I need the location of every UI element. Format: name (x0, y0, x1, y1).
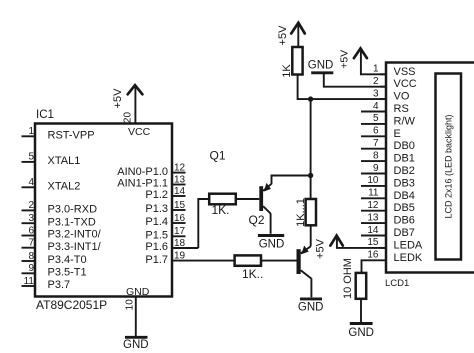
transistor Q1 (lower) (297, 246, 312, 279)
svg-text:10 OHM: 10 OHM (342, 258, 354, 299)
ground symbol top (LCD VCC) (308, 60, 386, 87)
pin 3 VO of LCD1 (373, 88, 410, 102)
svg-text:+5V: +5V (277, 25, 289, 46)
svg-text:DB3: DB3 (394, 177, 415, 189)
svg-text:+5V: +5V (315, 238, 327, 259)
pin 14 DB7 of LCD1 (361, 225, 415, 239)
svg-text:VO: VO (394, 91, 410, 103)
ground symbol below IC1 (123, 337, 149, 351)
wire P1.6 up to resistor (198, 199, 209, 248)
svg-text:DB5: DB5 (394, 202, 415, 214)
svg-text:17: 17 (174, 226, 186, 237)
svg-text:1K: 1K (281, 64, 293, 78)
svg-text:E: E (394, 128, 401, 140)
pin 10 DB3 of LCD1 (361, 175, 415, 189)
wire 1K to LCD VO (298, 75, 386, 100)
svg-text:XTAL1: XTAL1 (48, 155, 81, 167)
svg-text:6: 6 (28, 225, 34, 236)
svg-text:8: 8 (373, 150, 379, 161)
svg-text:9: 9 (373, 163, 379, 174)
svg-text:2: 2 (373, 76, 379, 87)
svg-text:1: 1 (28, 126, 34, 137)
svg-text:GND: GND (259, 238, 285, 250)
power +5V supply arrow top (277, 23, 305, 47)
svg-text:18: 18 (174, 238, 186, 249)
svg-text:1K.: 1K. (212, 203, 230, 217)
pin 12 AIN0-P1.0 of IC1 (117, 162, 185, 177)
pin 9 P3.5-T1 of IC1 (22, 263, 87, 278)
svg-text:4: 4 (28, 177, 34, 188)
ground symbol under lower transistor (298, 299, 324, 314)
svg-text:11: 11 (24, 276, 35, 287)
wire 1K...1 to Q1 emitter (310, 225, 312, 246)
pin 18 P1.6 of IC1 (145, 238, 198, 253)
svg-text:15: 15 (174, 200, 186, 211)
pin 2 P3.0-RXD of IC1 (22, 200, 98, 215)
svg-text:GND: GND (123, 339, 149, 351)
svg-text:Q2: Q2 (249, 213, 265, 227)
svg-text:RS: RS (394, 103, 409, 115)
svg-text:DB0: DB0 (394, 140, 415, 152)
svg-text:GND: GND (298, 302, 324, 314)
svg-text:P1.6: P1.6 (145, 241, 168, 253)
svg-text:P3.4-T0: P3.4-T0 (48, 254, 87, 266)
svg-text:20: 20 (123, 112, 134, 124)
svg-text:12: 12 (174, 162, 186, 173)
svg-text:GND: GND (308, 60, 334, 72)
svg-text:DB7: DB7 (394, 227, 415, 239)
IC U1 AT89C2051P body (35, 109, 172, 312)
svg-text:RST-VPP: RST-VPP (48, 130, 95, 142)
pin 17 P1.5 of IC1 (145, 226, 185, 241)
svg-text:P3.7: P3.7 (48, 279, 71, 291)
LCD module LCD1 body (385, 63, 474, 290)
svg-text:6: 6 (373, 126, 379, 137)
pin 15 LEDA of LCD1 (367, 237, 423, 251)
svg-text:7: 7 (28, 238, 34, 249)
svg-text:DB1: DB1 (394, 153, 415, 165)
svg-text:9: 9 (28, 263, 34, 274)
svg-text:5: 5 (373, 113, 379, 124)
pin 10 GND of IC1 (125, 297, 136, 337)
svg-text:+5V: +5V (112, 88, 124, 109)
pin 8 P3.4-T0 of IC1 (22, 251, 87, 266)
resistor R 1K (vertical) (281, 47, 303, 78)
svg-text:1K..: 1K.. (242, 267, 263, 281)
resistor R 1K.. (horizontal) (235, 255, 264, 281)
resistor R 1K...1 (vertical) (295, 198, 316, 227)
wire collector down (310, 278, 312, 297)
svg-text:AIN0-P1.0: AIN0-P1.0 (117, 166, 168, 178)
pin 6 E of LCD1 (361, 126, 401, 140)
svg-text:LCD1: LCD1 (385, 278, 409, 289)
svg-text:8: 8 (28, 251, 34, 262)
pin 16 LEDK of LCD1 (362, 250, 423, 273)
svg-text:5: 5 (28, 152, 34, 163)
pin 4 XTAL2 of IC1 (22, 177, 81, 192)
svg-text:DB6: DB6 (394, 215, 415, 227)
pin 6 P3.2-INT0/ of IC1 (22, 225, 102, 240)
svg-text:10: 10 (125, 299, 136, 311)
svg-text:19: 19 (174, 250, 186, 261)
wire Q2 emitter to rail (272, 176, 311, 185)
svg-text:AT89C2051P: AT89C2051P (36, 298, 107, 312)
pin 7 DB0 of LCD1 (361, 138, 415, 152)
svg-text:P1.7: P1.7 (145, 254, 168, 266)
pin 3 P3.1-TXD of IC1 (22, 213, 96, 228)
svg-text:LCD 2x16 (LED backlight): LCD 2x16 (LED backlight) (443, 114, 453, 218)
svg-text:14: 14 (367, 225, 379, 236)
wire rail down (310, 99, 312, 199)
node junction dot VO (308, 96, 313, 101)
svg-text:10: 10 (367, 175, 379, 186)
svg-text:13: 13 (367, 212, 379, 223)
pin 16 P1.4 of IC1 (145, 213, 185, 228)
pin 4 RS of LCD1 (361, 101, 409, 115)
ground symbol under Q2 (258, 236, 284, 251)
pin 12 DB5 of LCD1 (361, 200, 415, 214)
svg-text:P3.0-RXD: P3.0-RXD (48, 204, 98, 216)
svg-text:Q1: Q1 (210, 149, 226, 163)
svg-text:3: 3 (28, 213, 34, 224)
pin 14 P1.2 of IC1 (145, 186, 185, 201)
svg-text:GND: GND (126, 286, 150, 298)
svg-text:P3.3-INT1/: P3.3-INT1/ (48, 241, 102, 253)
pin 20 VCC of IC1 (123, 87, 136, 124)
pin 2 VCC of LCD1 (373, 76, 417, 90)
pin 5 R/W of LCD1 (361, 113, 416, 127)
svg-text:1K...1: 1K...1 (295, 198, 307, 227)
svg-text:11: 11 (368, 188, 379, 199)
svg-text:VSS: VSS (394, 66, 416, 78)
power +5V supply arrow above IC1 (112, 85, 142, 108)
pin 13 AIN1-P1.1 of IC1 (117, 174, 185, 189)
svg-text:14: 14 (174, 186, 186, 197)
svg-text:VCC: VCC (394, 78, 417, 90)
pin 13 DB6 of LCD1 (361, 212, 415, 226)
svg-text:XTAL2: XTAL2 (48, 181, 81, 193)
svg-text:16: 16 (367, 250, 379, 261)
svg-text:LEDA: LEDA (394, 239, 423, 251)
pin 9 DB2 of LCD1 (361, 163, 415, 177)
wire Q2 collector down (270, 213, 272, 234)
power +5V supply arrow LEDA (315, 236, 386, 259)
svg-text:P3.2-INT0/: P3.2-INT0/ (48, 229, 102, 241)
svg-text:DB4: DB4 (394, 190, 415, 202)
svg-text:LEDK: LEDK (394, 252, 423, 264)
pin 1 RST-VPP of IC1 (22, 126, 95, 141)
svg-text:P1.2: P1.2 (145, 189, 168, 201)
svg-text:DB2: DB2 (394, 165, 415, 177)
svg-text:GND: GND (348, 327, 374, 339)
svg-text:15: 15 (367, 237, 379, 248)
svg-text:+5V: +5V (339, 50, 351, 69)
pin 15 P1.3 of IC1 (145, 200, 185, 215)
pin 5 XTAL1 of IC1 (22, 152, 81, 167)
node junction dot emitter (308, 173, 313, 178)
pin 19 P1.7 of IC1 (145, 250, 234, 265)
ground symbol below 10 OHM (348, 324, 374, 339)
pin 1 VSS of LCD1 (373, 64, 416, 78)
wire 10 OHM to ground (360, 299, 362, 323)
svg-text:VCC: VCC (128, 126, 151, 138)
svg-text:P1.3: P1.3 (145, 203, 168, 215)
svg-text:P1.5: P1.5 (145, 230, 168, 242)
transistor Q2 (249, 183, 272, 227)
wire resistor to transistor base (261, 260, 297, 262)
pin 7 P3.3-INT1/ of IC1 (22, 238, 102, 253)
wire resistor to Q2 base (236, 198, 259, 200)
pin 11 DB4 of LCD1 (361, 188, 415, 202)
svg-text:2: 2 (28, 200, 34, 211)
svg-text:7: 7 (373, 138, 379, 149)
power +5V supply arrow VSS (339, 48, 386, 74)
svg-text:P3.1-TXD: P3.1-TXD (48, 216, 96, 228)
svg-text:13: 13 (174, 174, 186, 185)
svg-text:AIN1-P1.1: AIN1-P1.1 (117, 178, 168, 190)
svg-text:16: 16 (174, 213, 186, 224)
svg-text:1: 1 (373, 64, 379, 75)
svg-text:R/W: R/W (394, 115, 416, 127)
svg-text:4: 4 (373, 101, 379, 112)
svg-text:P3.5-T1: P3.5-T1 (48, 267, 87, 279)
pin 8 DB1 of LCD1 (361, 150, 415, 164)
svg-text:3: 3 (373, 88, 379, 99)
svg-text:12: 12 (367, 200, 379, 211)
resistor R 10 OHM (vertical) (342, 258, 366, 299)
svg-text:IC1: IC1 (36, 109, 54, 121)
pin 11 P3.7 of IC1 (22, 276, 71, 291)
resistor R 1K. (horizontal) (209, 194, 236, 217)
svg-text:P1.4: P1.4 (145, 216, 168, 228)
